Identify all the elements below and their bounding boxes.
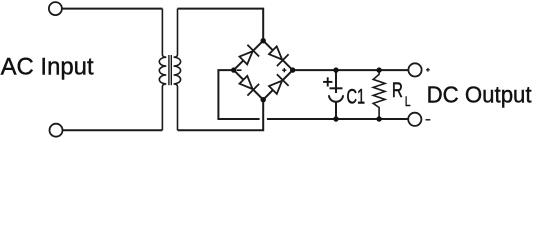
svg-text:DC Output: DC Output bbox=[427, 82, 533, 108]
svg-text:C1: C1 bbox=[347, 84, 366, 109]
svg-text:R: R bbox=[392, 77, 403, 102]
svg-text:L: L bbox=[405, 93, 411, 109]
svg-text:AC Input: AC Input bbox=[1, 55, 94, 81]
